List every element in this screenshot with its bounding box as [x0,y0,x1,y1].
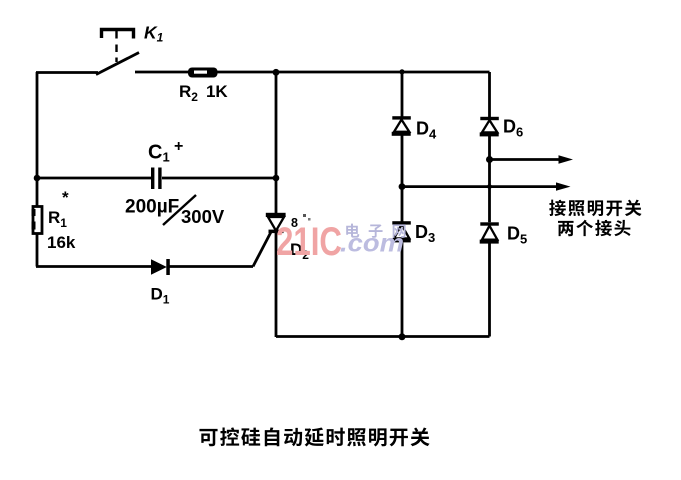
svg-text:*: * [62,188,69,207]
switch K1 lever [96,53,139,75]
svg-text:300V: 300V [181,206,225,227]
wire: capacitor row right [162,177,276,180]
wire: bridge column 2 [488,72,491,337]
label output terminals text line 2 [558,220,631,237]
svg-text:D5: D5 [507,224,527,247]
node: junction top of middle branch [273,69,280,76]
capacitor C1 plates [151,168,154,190]
diode D1 [151,259,167,275]
diode D3 [392,221,411,224]
svg-text:D3: D3 [415,222,435,245]
diode D4 [392,116,411,119]
svg-text:R1: R1 [48,208,67,230]
svg-text:D4: D4 [416,119,437,142]
wire: middle vertical branch upper [275,72,278,214]
wire: gate diagonal of D2 [253,231,272,267]
label output terminals text line 1 [549,200,641,217]
svg-text:200µF: 200µF [125,197,179,218]
wire: output arrow 2 [402,185,557,188]
svg-text:D1: D1 [151,285,170,307]
wire: D1 row right [168,265,253,268]
diode D6 [480,117,499,120]
svg-text:+: + [174,138,183,155]
wire: bridge column 1 [401,72,404,337]
svg-text:R21K: R21K [179,82,228,104]
wire: D1 row left [36,265,151,268]
svg-text:16k: 16k [47,233,76,252]
caption title [199,427,429,446]
thyristor D2 [266,213,286,217]
svg-text:.com: .com [340,230,404,258]
svg-text:D6: D6 [503,117,523,140]
watermark dianziwang [346,224,405,238]
wire: bottom horizontal bus [276,335,490,338]
wire: left vertical bus [36,72,39,267]
node: junction bottom of bridge column 1 [399,333,406,340]
wire: output arrow 1 [490,158,561,161]
wire: capacitor row left [37,177,151,180]
svg-text:21IC: 21IC [276,220,342,264]
node: junction left of capacitor row [34,175,41,182]
wire: top horizontal bus [135,71,490,74]
svg-text:K1: K1 [144,23,164,45]
node: junction arrow 2 [399,183,406,190]
wire: top-left horizontal to switch [36,71,98,74]
switch K1 actuator dashed line [115,31,117,62]
diode D5 [480,222,499,225]
switch K1 button bracket [102,30,134,39]
svg-text:C1: C1 [148,142,170,165]
node: junction arrow 1 [486,156,493,163]
resistor R2 body [188,68,218,78]
node: junction top of bridge column 1 [399,69,404,74]
node: junction right of capacitor row [273,175,280,182]
wire: middle vertical branch lower [275,232,278,337]
resistor R1 body [33,207,42,234]
